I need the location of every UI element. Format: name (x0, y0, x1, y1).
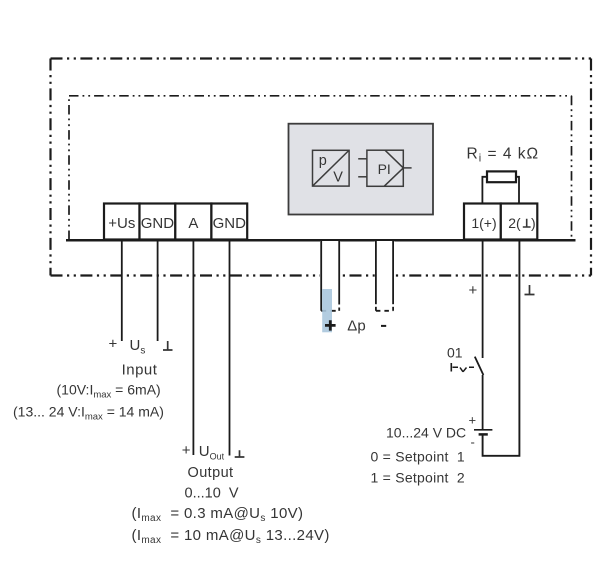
terminal GND output (211, 204, 247, 240)
wire GND output down (229, 241, 231, 456)
svg-text:+: + (109, 336, 118, 353)
svg-text:-: - (471, 435, 475, 450)
switch S1 actuator link (451, 363, 474, 372)
label 13-24V Imax 14mA (13, 404, 164, 423)
device outline dash-dot (top, left, right) (69, 96, 572, 240)
svg-text:(13... 24 V:Imax = 14 mA): (13... 24 V:Imax = 14 mA) (13, 404, 164, 423)
svg-text:1 = Setpoint 2: 1 = Setpoint 2 (371, 470, 465, 486)
label Ri = 4 kOhm (467, 146, 540, 165)
label 0 = Setpoint 1 (371, 449, 465, 465)
svg-text:(Imax = 0.3 mA@Us 10V): (Imax = 0.3 mA@Us 10V) (132, 505, 304, 524)
svg-text:p: p (319, 153, 327, 169)
label + right polarity (469, 282, 478, 299)
svg-text:GND: GND (213, 215, 247, 232)
svg-text:Us: Us (130, 337, 146, 357)
pressure port minus tube (375, 241, 395, 311)
blue highlight on plus port (322, 289, 332, 332)
label 10V Imax 6mA (57, 382, 161, 401)
label delta p (347, 318, 365, 335)
PI controller U2 (358, 150, 411, 186)
svg-text:+: + (469, 282, 478, 299)
svg-text:1(+): 1(+) (471, 215, 496, 231)
terminal +Us (104, 204, 140, 240)
minus marker (381, 325, 386, 327)
svg-text:PI: PI (378, 161, 391, 177)
svg-text:(10V:Imax = 6mA): (10V:Imax = 6mA) (57, 382, 161, 401)
svg-text:10...24 V DC: 10...24 V DC (386, 425, 466, 441)
pressure port plus tube (320, 241, 340, 311)
svg-text:+: + (182, 442, 191, 459)
terminal GND supply (140, 204, 176, 240)
svg-text:): ) (531, 215, 536, 231)
label Input (122, 362, 158, 379)
wire terminal 1 down to switch (482, 241, 484, 358)
label inverted-T input (163, 341, 173, 350)
wire battery loop to terminal 2 (483, 241, 520, 456)
label 1 = Setpoint 2 (371, 470, 465, 486)
wire resistor to terminal 2 (516, 177, 519, 204)
resistor Ri (487, 171, 516, 182)
label 01 (447, 345, 463, 361)
svg-text:2(: 2( (508, 215, 521, 231)
label Imax 10mA (132, 527, 330, 546)
label + UOut output polarity (182, 442, 225, 461)
label inverted-T output (235, 450, 245, 457)
function block background (289, 124, 434, 215)
battery negative plate (479, 433, 488, 436)
terminal A (175, 204, 211, 240)
terminal 2(inv) (501, 204, 538, 240)
wire switch to battery (482, 375, 484, 429)
battery positive plate (474, 429, 492, 431)
svg-text:0...10 V: 0...10 V (185, 486, 239, 502)
label battery plus (469, 413, 477, 428)
svg-text:Output: Output (188, 465, 234, 481)
label Output (188, 465, 234, 481)
label Imax 0.3mA (132, 505, 304, 524)
label battery minus (471, 435, 475, 450)
label 0...10 V (185, 486, 239, 502)
p/V converter U1 (313, 150, 350, 186)
svg-text:Δp: Δp (347, 318, 365, 335)
terminal 1(+) (464, 204, 501, 240)
svg-text:A: A (188, 215, 198, 232)
svg-text:Ri = 4 kΩ: Ri = 4 kΩ (467, 146, 540, 165)
outer enclosure dash-dot border (51, 59, 592, 276)
chassis bus line (66, 239, 576, 242)
wire A down (192, 241, 194, 455)
svg-text:+Us: +Us (108, 215, 135, 232)
switch S1 blade (475, 357, 484, 375)
wire resistor to terminal 1 (482, 177, 487, 204)
wire +Us down (121, 241, 123, 341)
label inverted-T right polarity (525, 285, 535, 295)
svg-text:UOut: UOut (199, 443, 225, 461)
svg-text:Input: Input (122, 362, 158, 379)
svg-text:+: + (469, 413, 477, 428)
svg-text:V: V (333, 170, 343, 186)
svg-text:(Imax = 10 mA@Us 13...24V): (Imax = 10 mA@Us 13...24V) (132, 527, 330, 546)
svg-text:0 = Setpoint 1: 0 = Setpoint 1 (371, 449, 465, 465)
wire GND supply down (157, 241, 159, 341)
label + Us input polarity (109, 336, 146, 357)
svg-text:01: 01 (447, 345, 463, 361)
label 10...24 V DC (386, 425, 466, 441)
svg-text:GND: GND (141, 215, 175, 232)
bold plus marker (325, 320, 336, 330)
